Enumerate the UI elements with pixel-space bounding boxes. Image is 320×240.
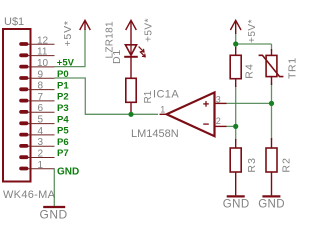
wire +5V net from pin 10 up to supply arrow xyxy=(55,29,86,67)
op-amp minus input marking xyxy=(203,123,209,125)
junction node +5V / R4 / TR1 rail xyxy=(233,41,238,46)
svg-text:3: 3 xyxy=(216,94,221,104)
wire GND net from pin 1 down to ground xyxy=(53,169,55,207)
junction node pin2 / R4-R3 branch xyxy=(233,124,238,129)
svg-text:P4: P4 xyxy=(57,114,69,125)
svg-text:P6: P6 xyxy=(57,137,69,148)
svg-text:R2: R2 xyxy=(281,157,293,173)
wire op-amp pin 2 net to R4/R3 branch xyxy=(227,125,236,127)
pin 11 xyxy=(19,47,54,58)
pin 4 xyxy=(19,126,54,137)
svg-text:LZR181: LZR181 xyxy=(104,21,115,59)
wire +5V top rail to TR1 branch xyxy=(236,43,272,45)
wire TR1 to R2 vertical xyxy=(271,83,273,140)
svg-text:U$1: U$1 xyxy=(4,16,24,28)
resistor R4 xyxy=(230,47,241,87)
wire supply dot down into R4 xyxy=(235,34,237,49)
LED emission arrow 2 xyxy=(140,51,145,56)
svg-text:+5V*: +5V* xyxy=(247,19,258,43)
svg-text:8: 8 xyxy=(38,81,44,92)
resistor R2 xyxy=(266,138,277,195)
supply +5V arrow (right) xyxy=(230,20,241,34)
svg-text:3: 3 xyxy=(38,137,44,148)
svg-text:11: 11 xyxy=(37,47,48,58)
resistor R1 xyxy=(126,78,136,102)
op-amp pin 2 stub xyxy=(215,125,227,127)
junction node pin3 / TR1-R2 branch xyxy=(269,101,274,106)
ground symbol under connector xyxy=(40,207,68,221)
svg-text:GND: GND xyxy=(57,166,79,177)
thermistor TR1 xyxy=(259,49,284,85)
svg-text:1: 1 xyxy=(38,160,44,171)
ground symbol under R3 xyxy=(223,196,250,210)
svg-text:7: 7 xyxy=(38,92,44,103)
svg-text:9: 9 xyxy=(38,69,44,80)
wire R4 to R3 vertical xyxy=(235,85,237,141)
svg-text:10: 10 xyxy=(37,58,49,69)
svg-text:GND: GND xyxy=(223,198,250,210)
LED D1 xyxy=(124,45,138,79)
svg-text:12: 12 xyxy=(37,35,49,46)
pin 10 xyxy=(19,58,54,69)
svg-text:WK46-MA: WK46-MA xyxy=(3,189,56,201)
svg-text:LM1458N: LM1458N xyxy=(131,128,179,140)
supply +5V arrow (left) xyxy=(80,20,91,30)
pin 12 xyxy=(19,35,54,46)
svg-text:2: 2 xyxy=(38,149,44,160)
svg-text:P5: P5 xyxy=(57,126,69,137)
svg-text:1: 1 xyxy=(160,105,165,115)
svg-text:P3: P3 xyxy=(57,103,69,114)
svg-text:TR1: TR1 xyxy=(287,57,299,79)
op-amp plus input marking xyxy=(203,101,209,107)
svg-text:2: 2 xyxy=(216,116,221,126)
svg-text:P2: P2 xyxy=(57,92,69,103)
pin 9 xyxy=(19,69,54,80)
LED emission arrow 1 xyxy=(139,47,144,52)
resistor R3 xyxy=(230,139,241,195)
svg-text:P1: P1 xyxy=(57,80,69,91)
svg-text:4: 4 xyxy=(38,126,44,137)
op-amp pin 3 stub xyxy=(215,102,227,104)
svg-text:R3: R3 xyxy=(246,157,258,173)
wire op-amp pin 3 net to TR1 branch xyxy=(227,102,272,104)
svg-text:GND: GND xyxy=(40,207,68,221)
svg-text:P7: P7 xyxy=(57,148,69,159)
wire top rail down into TR1 xyxy=(271,44,273,51)
svg-text:GND: GND xyxy=(258,198,285,210)
pin 5 xyxy=(19,115,54,126)
pin 7 xyxy=(19,92,54,103)
junction node at R1 / P0 / op-amp output xyxy=(128,112,133,117)
ground symbol under R2 xyxy=(258,196,285,210)
pin 2 xyxy=(19,149,54,160)
supply +5V arrow (middle) xyxy=(126,20,137,45)
connector U$1 body xyxy=(3,29,31,182)
svg-text:+5V*: +5V* xyxy=(144,18,155,42)
pin 1 xyxy=(19,160,54,171)
svg-text:5: 5 xyxy=(38,115,44,126)
pin 8 xyxy=(19,81,54,92)
svg-text:6: 6 xyxy=(38,103,44,114)
pin 3 xyxy=(19,137,54,148)
op-amp IC1A triangle xyxy=(167,92,215,136)
wire P0 net from pin 9 to op-amp output xyxy=(55,78,159,114)
pin 6 xyxy=(19,103,54,114)
svg-text:+5V*: +5V* xyxy=(62,20,74,46)
op-amp output pin 1 stub xyxy=(160,113,167,115)
svg-text:IC1A: IC1A xyxy=(153,88,179,100)
resistor R1 pin stub to junction xyxy=(130,102,132,114)
svg-text:R4: R4 xyxy=(244,63,256,79)
